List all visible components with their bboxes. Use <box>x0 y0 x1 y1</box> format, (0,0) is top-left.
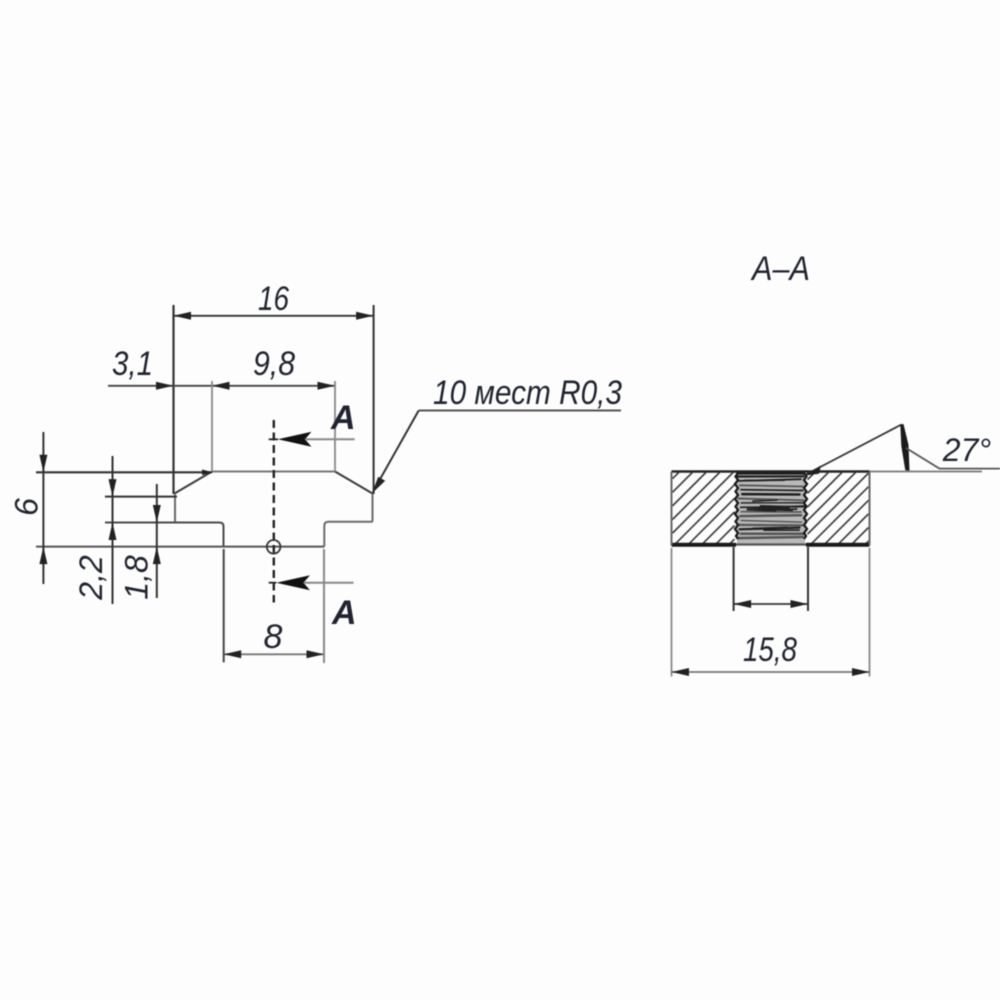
svg-text:16: 16 <box>258 280 289 318</box>
part left flange edge <box>174 493 176 523</box>
thread diameter dimension line (no text) <box>734 603 808 605</box>
dimension 8 extension lines <box>223 549 225 662</box>
dimension 6 arrows (outside) <box>39 455 47 473</box>
top surface extension line to angle <box>870 471 983 473</box>
dimension 2,2: vertical line <box>112 456 114 604</box>
angle arc arrow (narrow sliver pointing down to surface) <box>900 424 909 471</box>
dimension 16 arrows <box>174 312 192 320</box>
section rect top edge <box>672 470 870 473</box>
dimension 16 extension line right <box>373 305 375 494</box>
part bottom edge + extension line of dims 6 and 1,8 <box>36 546 324 548</box>
svg-text:1,8: 1,8 <box>119 555 155 600</box>
part top edge <box>212 471 335 473</box>
leader underline <box>419 410 621 412</box>
dimension 8 arrows <box>224 650 242 658</box>
thread left wavy boundary <box>735 473 738 539</box>
part right chamfer <box>335 472 373 494</box>
thread diameter extension lines <box>733 547 735 611</box>
leader to 27 deg label <box>906 448 1000 469</box>
hatching right block <box>808 473 869 544</box>
hatching left block <box>673 473 735 544</box>
svg-text:6: 6 <box>9 498 45 516</box>
part left flange bottom + extension line 2,2/1,8 <box>105 523 224 547</box>
arrow into 173.5 pointing right (3,1) <box>156 382 174 390</box>
dimension 6: vertical line <box>42 432 44 584</box>
dimension 8: line <box>224 653 324 655</box>
svg-text:A: A <box>331 594 357 632</box>
svg-text:8: 8 <box>264 618 283 656</box>
countersink 27 deg: diagonal line with arrow <box>804 425 902 476</box>
arrow at 335 pointing right (9,8 right) <box>318 382 336 390</box>
thread right wavy boundary <box>804 473 807 539</box>
svg-text:10 мест R0,3: 10 мест R0,3 <box>433 374 622 412</box>
small arrow tip at waist corner <box>202 470 213 476</box>
extension line top surface (dim 6 / 2,2) with part waist <box>36 471 212 473</box>
section rect right edge <box>869 472 871 546</box>
dimension 1,8 arrows (outside span 522.5-546.6) <box>153 505 161 523</box>
svg-text:15,8: 15,8 <box>743 631 797 669</box>
dimension 16: line <box>174 315 374 317</box>
leader diagonal with arrow at chamfer <box>375 411 419 490</box>
svg-text:27°: 27° <box>942 432 992 468</box>
hole circle at bottom center <box>267 540 281 554</box>
section rect left edge <box>671 472 673 546</box>
thread scribble strokes <box>738 476 806 538</box>
part right flange bottom and right lower-block edge <box>324 522 372 547</box>
svg-text:9,8: 9,8 <box>253 345 295 383</box>
part right flange edge <box>372 493 374 522</box>
dimension 2,2 arrows (outside span 497-522.5) <box>109 479 117 497</box>
part left chamfer <box>175 472 213 494</box>
section cut center line (dashed) <box>273 420 275 603</box>
dimension 15,8 extension lines <box>671 548 673 677</box>
svg-text:A–A: A–A <box>750 250 810 288</box>
dimension 16 extension line left <box>172 305 174 494</box>
dimension 15,8 line <box>672 671 870 673</box>
section rect bottom edge (thick) <box>672 543 737 547</box>
dimension 1,8: vertical line <box>156 484 158 598</box>
dimension 9,8 extension lines <box>211 381 213 472</box>
extension line at chamfer bottom (y=497) <box>105 496 177 498</box>
thread top edge <box>736 472 805 475</box>
dimension 3,1 / 9,8 shared line <box>108 385 335 387</box>
arrow at 212 pointing left (9,8 left / 3,1 right) <box>212 382 230 390</box>
section arrow A bottom <box>269 582 277 584</box>
svg-text:3,1: 3,1 <box>112 345 153 383</box>
section arrow A top <box>269 438 278 440</box>
thread zone background <box>737 473 805 544</box>
svg-text:A: A <box>330 399 356 437</box>
svg-text:2,2: 2,2 <box>73 555 109 601</box>
